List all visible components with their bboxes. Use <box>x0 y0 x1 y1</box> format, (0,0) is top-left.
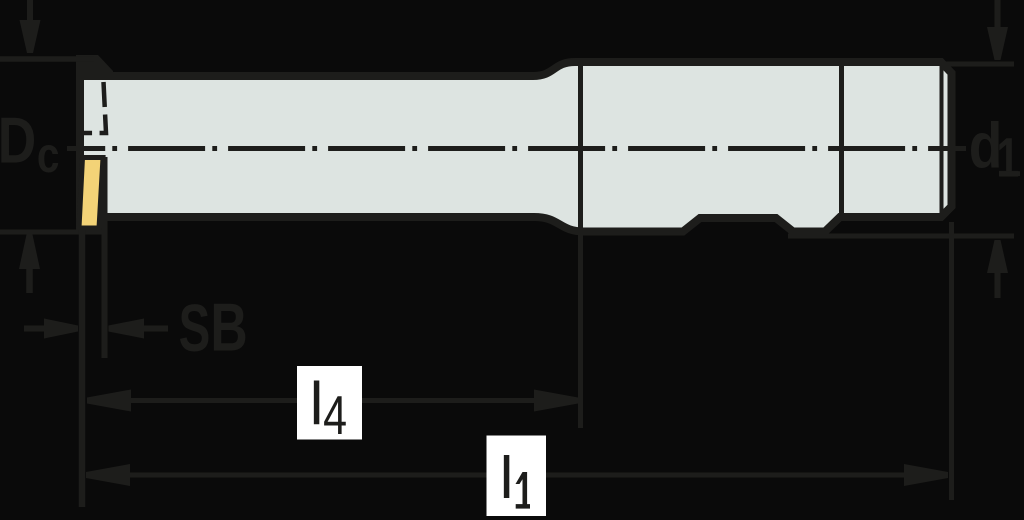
svg-text:4: 4 <box>323 386 347 446</box>
l1 label box <box>487 436 547 517</box>
tool body <box>80 59 952 232</box>
insert (carbide, yellow) <box>79 158 103 229</box>
Dc bottom extension line <box>0 230 107 235</box>
Dc top arrow <box>20 0 41 53</box>
svg-text:B: B <box>210 290 247 365</box>
l1 dimension line <box>86 464 948 486</box>
l4 label box <box>297 366 362 440</box>
chamfer boundary line <box>940 64 944 214</box>
SB dimension arrows <box>24 319 168 339</box>
centerline solid start (Dc pointer) <box>67 146 105 151</box>
svg-text:S: S <box>179 291 211 366</box>
d1 top arrow <box>987 0 1008 60</box>
svg-text:1: 1 <box>997 128 1020 189</box>
d1 bottom extension line <box>788 234 1014 239</box>
centerline (dash-dot) <box>112 146 966 151</box>
Dc bottom arrow <box>19 235 40 294</box>
SB right extension line <box>102 157 108 358</box>
svg-text:l: l <box>500 445 514 511</box>
l1 left extension line <box>79 230 86 507</box>
label SB <box>179 290 248 366</box>
neck boundary line <box>839 60 844 216</box>
Dc top extension line <box>0 56 94 62</box>
l1 right extension line <box>949 222 954 500</box>
l4 boundary line across body <box>578 60 583 428</box>
front top corner step (solid) <box>84 55 113 80</box>
d1 top extension line <box>945 62 1014 67</box>
svg-text:l: l <box>310 370 324 438</box>
label Dc <box>0 104 59 183</box>
d1 bottom arrow <box>987 240 1008 298</box>
label l4 <box>310 370 347 446</box>
insert pocket hidden dashed line <box>84 82 106 133</box>
l4 dimension line <box>87 390 578 412</box>
label d1 <box>969 110 1020 189</box>
svg-text:D: D <box>0 104 36 177</box>
svg-text:c: c <box>37 127 60 183</box>
label l1 <box>500 445 530 511</box>
